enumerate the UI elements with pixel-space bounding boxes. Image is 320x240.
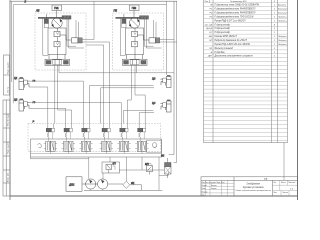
valve section 5 bbox=[117, 124, 130, 154]
sheet frame bbox=[10, 0, 298, 200]
svg-text:Подп. и дата: Подп. и дата bbox=[7, 61, 9, 74]
svg-text:Либерец: Либерец bbox=[277, 16, 287, 18]
svg-text:Листов: Листов bbox=[283, 192, 288, 194]
drain line across bbox=[59, 72, 174, 74]
svg-text:Ц2: Ц2 bbox=[14, 98, 18, 102]
wires assembly1 to valve bank bbox=[55, 2, 177, 124]
grab cylinder C3 bbox=[160, 75, 171, 87]
svg-text:МН: МН bbox=[209, 36, 213, 38]
svg-text:Либерец: Либерец bbox=[277, 40, 287, 42]
valve section 1 bbox=[44, 124, 57, 154]
cylinder wires bbox=[29, 81, 154, 123]
valve section 6 bbox=[135, 124, 148, 154]
tank line bbox=[84, 189, 162, 190]
pressure reducer MN bbox=[147, 164, 153, 175]
KP to pump2 bbox=[102, 173, 104, 179]
svg-text:Ц4: Ц4 bbox=[152, 101, 156, 105]
svg-text:Либерец: Либерец bbox=[277, 20, 287, 22]
svg-text:Поз.: Поз. bbox=[205, 1, 209, 3]
svg-text:Грейферная: Грейферная bbox=[247, 183, 261, 186]
svg-text:ПБ: ПБ bbox=[114, 9, 118, 13]
svg-text:Гидроцилиндр: Гидроцилиндр bbox=[215, 27, 231, 30]
engine DV1 bbox=[66, 177, 82, 192]
svg-text:М: М bbox=[210, 5, 212, 7]
valve section 3 bbox=[79, 124, 92, 154]
svg-text:КП: КП bbox=[209, 40, 212, 42]
grab cylinder C1 bbox=[19, 77, 30, 89]
svg-text:Взам. инв.: Взам. инв. bbox=[8, 172, 10, 182]
valve bank manifold bbox=[31, 139, 162, 157]
valve bank P dashed enclosure bbox=[28, 124, 161, 152]
winch drive assembly A2 bbox=[113, 5, 164, 70]
svg-text:Подп. и дата: Подп. и дата bbox=[8, 141, 10, 154]
svg-text:Схема гидравлическая принципиа: Схема гидравлическая принципиальная bbox=[235, 189, 270, 192]
svg-text:ЛБ: ЛБ bbox=[35, 9, 40, 13]
pressure line to filter diamond bbox=[108, 183, 123, 185]
wire C2 port A bbox=[30, 103, 122, 124]
svg-text:Масса: Масса bbox=[281, 182, 286, 184]
svg-text:Редуктор давления 21+П/127: Редуктор давления 21+П/127 bbox=[215, 39, 248, 42]
wires from A1 servo valve to right bbox=[82, 39, 94, 41]
wire right drop x166.5 bbox=[166, 1, 168, 75]
title block upper extension column bbox=[283, 143, 285, 181]
svg-text:Фильтр сливной: Фильтр сливной bbox=[215, 47, 234, 50]
svg-text:Масштаб: Масштаб bbox=[289, 182, 296, 184]
svg-text:Инв. №: Инв. № bbox=[6, 87, 9, 93]
wire C4 port A bbox=[123, 110, 153, 123]
wire left drop 2 bbox=[12, 5, 14, 104]
shaft to pumps bbox=[82, 183, 98, 185]
svg-text:Ц1: Ц1 bbox=[14, 76, 18, 80]
svg-text:Гидрораспределитель ПУ5-16С/1М: Гидрораспределитель ПУ5-16С/1М bbox=[215, 15, 254, 18]
grab cylinder C2 bbox=[19, 99, 30, 111]
svg-text:Петров: Петров bbox=[211, 188, 216, 190]
svg-text:Рукав РГД-1-Ф6У-20-1ст 96/27Е: Рукав РГД-1-Ф6У-20-1ст 96/27Е bbox=[215, 43, 251, 46]
svg-text:Либерец: Либерец bbox=[277, 44, 287, 46]
grab cylinder C4 bbox=[160, 100, 171, 112]
svg-text:Утв.: Утв. bbox=[202, 194, 206, 196]
svg-text:Гидрораспределитель РН493ПВ50Г: Гидрораспределитель РН493ПВ50ГУ bbox=[215, 11, 257, 14]
svg-text:КП: КП bbox=[113, 163, 116, 166]
wire C3 port A bbox=[89, 86, 153, 124]
drop to KP bbox=[109, 157, 111, 162]
inlet curl bbox=[38, 144, 42, 148]
drop x142 bbox=[141, 157, 143, 170]
parts list table bbox=[204, 0, 288, 143]
svg-text:Иванов: Иванов bbox=[211, 185, 217, 187]
left margin attachment blocks bbox=[3, 55, 10, 196]
return line under manifold bbox=[31, 158, 89, 160]
svg-text:ДВ1: ДВ1 bbox=[68, 183, 75, 187]
svg-text:Клапан КРМ 163/127: Клапан КРМ 163/127 bbox=[215, 36, 238, 38]
svg-text:ГМ1: ГМ1 bbox=[54, 8, 59, 10]
svg-text:Инв. № подл.: Инв. № подл. bbox=[7, 113, 10, 126]
svg-text:Ц5,Ц6: Ц5,Ц6 bbox=[206, 28, 213, 30]
wire C4 port B bbox=[139, 113, 154, 124]
wire C1 port A bbox=[30, 81, 84, 123]
pump N1 bbox=[86, 179, 96, 189]
wire right drop x176.7 bbox=[176, 1, 178, 162]
svg-text:ДВТ: ДВТ bbox=[207, 56, 213, 58]
drop to pump suction bbox=[88, 157, 90, 179]
svg-text:Ф1: Ф1 bbox=[131, 181, 135, 185]
svg-text:МН: МН bbox=[145, 163, 149, 166]
svg-text:Разраб.: Разраб. bbox=[202, 185, 208, 187]
wire C3 port B bbox=[101, 88, 154, 124]
svg-text:ГМ2: ГМ2 bbox=[132, 8, 137, 10]
wire right drop x174 bbox=[173, 1, 175, 154]
wires assembly2 to valve bank bbox=[130, 65, 132, 100]
pump N2 bbox=[98, 179, 108, 189]
relief valve KP box bbox=[102, 162, 120, 173]
svg-text:Гидробак: Гидробак bbox=[215, 51, 226, 54]
return filter F2 bbox=[165, 158, 172, 178]
svg-text:Лист: Лист bbox=[273, 192, 277, 194]
wires from A2 servo valve to right drops bbox=[160, 39, 174, 41]
drop to tank x159 bbox=[158, 157, 160, 190]
top return line bbox=[12, 0, 178, 2]
svg-text:Либерец: Либерец bbox=[277, 36, 287, 38]
svg-text:буровая установка: буровая установка bbox=[243, 187, 265, 189]
check/filter diamond F1 bbox=[123, 181, 142, 190]
end relief valve bbox=[147, 140, 162, 152]
svg-text:Гидроцилиндр: Гидроцилиндр bbox=[215, 31, 231, 34]
svg-text:Пров.: Пров. bbox=[202, 188, 207, 190]
winch drive assembly A1 bbox=[35, 5, 86, 70]
svg-text:Ц1...Ц4: Ц1...Ц4 bbox=[205, 23, 213, 26]
valve section 4 bbox=[100, 124, 113, 154]
valve section 2 bbox=[62, 124, 75, 154]
svg-text:Болгария: Болгария bbox=[278, 9, 288, 11]
drop to F1 diamond bbox=[125, 157, 127, 181]
top drain line bbox=[13, 4, 166, 6]
svg-text:Гидрораспределитель РН493ПВ50Г: Гидрораспределитель РН493ПВ50ГУ bbox=[215, 8, 257, 11]
svg-text:Ц3: Ц3 bbox=[152, 77, 156, 81]
svg-text:Гидроцилиндр: Гидроцилиндр bbox=[215, 23, 231, 26]
drops from manifold bbox=[31, 157, 169, 190]
svg-text:Болгария: Болгария bbox=[278, 12, 288, 14]
svg-text:Р: Р bbox=[33, 119, 35, 123]
wire C1 port B bbox=[29, 87, 48, 124]
svg-text:Гидромотор 310: Гидромотор 310 bbox=[230, 0, 247, 3]
svg-text:Двигатель внутреннего сгорания: Двигатель внутреннего сгорания bbox=[214, 56, 254, 58]
svg-text:ГЗ: ГЗ bbox=[264, 177, 268, 181]
svg-text:Н.контр.: Н.контр. bbox=[202, 191, 209, 193]
svg-text:Рукав РВД-6,3/Т 1ст 96/25Л: Рукав РВД-6,3/Т 1ст 96/25Л bbox=[215, 20, 246, 22]
title block bbox=[201, 177, 298, 196]
svg-text:Высота: Высота bbox=[278, 5, 287, 7]
wire left drop 1 bbox=[11, 1, 13, 82]
wire C2 port B bbox=[29, 108, 66, 123]
svg-text:Гидромотор люка ОМШ-25-01 6300: Гидромотор люка ОМШ-25-01 6300К/ПМ bbox=[215, 4, 260, 7]
link line y170 bbox=[119, 169, 165, 171]
